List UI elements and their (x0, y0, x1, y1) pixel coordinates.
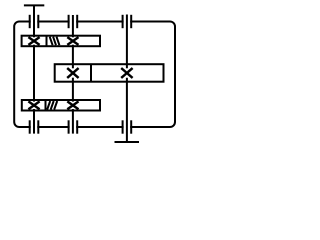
shaft II segment above G1 (72, 15, 74, 37)
bearing cross X4 on shaft III in G2 (121, 68, 132, 78)
bearing cross X1 on shaft I in G1 (28, 37, 39, 45)
bearing cross X2 on shaft II in G1 (67, 37, 78, 45)
bearing B4 bottom (shaft I) (30, 120, 39, 133)
bearing B3 top (shaft III) (123, 15, 132, 28)
input flange T-bar shaft I (24, 4, 44, 6)
hatch stroke 2 in G1 (53, 37, 56, 46)
divider in G1 (46, 36, 48, 47)
hatch stroke 3 in G1 (57, 37, 60, 46)
hatch stroke 1 in G3 (47, 101, 50, 110)
bearing cross X5 on shaft I in G3 (28, 101, 39, 109)
bearing cross X6 on shaft II in G3 (67, 101, 78, 109)
divider in G2 (90, 64, 92, 82)
top wall opening at shaft II (70, 19, 77, 24)
bottom wall opening at shaft II (70, 125, 77, 130)
bottom wall opening at shaft III (124, 125, 131, 130)
gear block G2 (middle rectangle) (55, 64, 164, 82)
hatch stroke 2 in G3 (51, 101, 54, 110)
top wall opening at shaft I (31, 19, 38, 24)
output flange T-bar shaft III (115, 141, 140, 143)
shaft I segment between G1 and G3 (33, 45, 35, 102)
top wall opening at shaft III (124, 19, 131, 24)
shaft II segment between G1 and G2 (72, 45, 74, 69)
hatch stroke 3 in G3 (54, 101, 57, 110)
divider in G3 (45, 100, 47, 111)
shaft II segment below G3 (72, 109, 74, 134)
shaft I (input, vertical) segment above gear block G1 (33, 5, 35, 37)
shaft I segment below G3 (33, 109, 35, 134)
gear block G1 (top rectangle) (22, 36, 100, 47)
bearing B2 top (shaft II) (69, 15, 78, 28)
shaft III segment below G2 to output flange (126, 78, 128, 142)
bottom wall opening at shaft I (31, 125, 38, 130)
gear block G3 (bottom rectangle) (22, 100, 100, 111)
gearbox housing (14, 22, 175, 128)
shaft II segment between G2 and G3 (72, 78, 74, 102)
bearing B6 bottom (shaft III) (123, 120, 132, 133)
bearing cross X3 on shaft II in G2 (67, 68, 78, 78)
hatch stroke 1 in G1 (50, 37, 53, 46)
bearing B1 top (shaft I) (30, 15, 39, 28)
bearing B5 bottom (shaft II) (69, 120, 78, 133)
shaft III segment above G2 (126, 15, 128, 69)
